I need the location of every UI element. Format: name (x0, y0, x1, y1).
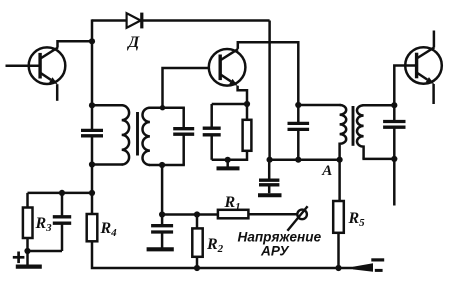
wire R2 leads (196, 215, 199, 229)
wire R1 to AGC terminal (248, 213, 297, 216)
capacitor C3 inline (tank2 primary) (297, 105, 300, 123)
wire top rail from left bus to diode anode (92, 19, 127, 22)
wire VT2 emitter jog to emitter resistor (238, 86, 247, 120)
node emitter RC top (244, 101, 250, 107)
node tank2 secondary top (391, 102, 397, 108)
svg-text:R2: R2 (206, 236, 224, 255)
node AGC rail left (159, 211, 165, 217)
node R2 top (194, 211, 200, 217)
node R3 bottom junction (24, 248, 30, 254)
node bus/R3 junction (89, 190, 95, 196)
transistor VT2 (middle) (209, 49, 246, 86)
inductor L4 tank2 secondary winding (357, 105, 364, 159)
wire tank1 secondary tap down to AGC rail (161, 165, 164, 215)
wire secondary bottom drop (dangling) (393, 159, 396, 206)
transistor VT1 (left) (29, 47, 66, 84)
wire detector drop vertical (268, 21, 271, 160)
node R2 bottom (194, 265, 200, 271)
wire left bus to R4 (91, 165, 94, 215)
inductor L1 tank1 primary winding (122, 105, 129, 164)
svg-text:АРУ: АРУ (260, 244, 290, 259)
svg-text:R1: R1 (224, 194, 241, 213)
wire VT3 collector up (433, 31, 436, 48)
wire node A down to R5 (338, 160, 341, 201)
node junction bus/collector (89, 38, 95, 44)
wire tank1 secondary bottom link (149, 164, 185, 167)
wire tank1 secondary top link (149, 106, 185, 109)
transformer T1 core (136, 112, 139, 156)
minus terminal bars (371, 258, 384, 261)
wire VT1 collector to left bus (58, 41, 93, 47)
node R3C8 top junction (59, 190, 65, 196)
svg-text:R5: R5 (348, 210, 366, 229)
wire tank2 primary top link (298, 104, 341, 107)
capacitor C2 tank1 secondary (182, 108, 185, 129)
wire tank1 primary top link (92, 104, 123, 107)
node detector junction (267, 157, 273, 163)
capacitor C4 tank2 secondary (393, 105, 396, 121)
wire tank2 secondary top link (362, 104, 395, 107)
ground (emitter) (226, 160, 229, 167)
node tank2 primary top (295, 102, 301, 108)
resistor R4 body (87, 214, 98, 241)
svg-text:R3: R3 (35, 215, 53, 234)
capacitor C7 detector filter (268, 160, 271, 181)
wire left bus vertical (diode corner to tank top) (91, 19, 94, 105)
inductor L2 tank1 secondary winding (142, 108, 149, 165)
wire emitter cap branch top (212, 103, 247, 106)
node tank2 primary bottom (295, 157, 301, 163)
wire R5 bottom (337, 233, 340, 268)
wire to plus ground (26, 251, 29, 265)
node base tap junction (160, 105, 165, 110)
wire VT2 collector to T2 (238, 42, 298, 105)
node emitter ground tap (225, 157, 231, 163)
node tank1 primary top (89, 102, 95, 108)
node tank2 secondary bottom (391, 156, 397, 162)
resistor R2 body (192, 228, 202, 256)
resistor R (emitter) body (243, 120, 252, 151)
diode D (anode triangle) (127, 13, 141, 28)
wire VT2 base tap riser and lead (163, 68, 210, 108)
resistor R5 body (333, 201, 344, 233)
wire emitter resistor bottom (212, 151, 247, 160)
inductor L3 tank2 primary winding (340, 105, 347, 160)
wire VT3 emitter down (432, 84, 435, 104)
wire R3 bottom (26, 238, 29, 251)
capacitor C8 parallel R3 (61, 193, 64, 217)
wire tank1 primary bottom link (92, 163, 123, 166)
resistor R1 body (218, 210, 249, 219)
ground (plus terminal) (16, 265, 42, 269)
wire tank2 secondary bottom link (362, 158, 395, 161)
diode D cathode bar (140, 13, 143, 29)
node A (337, 157, 343, 163)
wire AGC rail (162, 213, 218, 216)
svg-text:A: A (321, 163, 332, 179)
capacitor C1 inline on left bus (tank1 primary) (91, 105, 94, 130)
node tank1 primary bottom (89, 161, 95, 167)
wire AGC line to node A (270, 158, 340, 161)
wire VT3 base riser and lead (394, 66, 417, 106)
capacitor C5 emitter bypass (210, 104, 213, 128)
node tank1 secondary bottom tap (159, 162, 165, 168)
capacitor C6 AGC filter (161, 215, 164, 226)
node R5 / ground bus (335, 265, 341, 271)
svg-text:R4: R4 (100, 220, 118, 239)
resistor R3 body (23, 208, 33, 239)
svg-text:Д: Д (126, 34, 140, 51)
minus supply arrow (353, 263, 373, 272)
wire R3 top to bus (28, 192, 93, 195)
ground (detector cap) (258, 193, 282, 197)
transformer T2 core (352, 106, 355, 146)
transistor VT3 (right) (405, 47, 442, 84)
label plus terminal (13, 256, 25, 259)
wire top rail from diode cathode to detector drop (141, 19, 270, 22)
ground (AGC cap) (147, 247, 174, 251)
svg-text:Напряжение: Напряжение (238, 230, 322, 245)
wire R4 bottom to ground bus (92, 241, 354, 268)
wire VT1 emitter down (dangling) (56, 84, 59, 101)
wire VT1 base lead (6, 64, 41, 67)
terminal AGC output (circle with slash) (297, 210, 307, 220)
wire R3 bottom link to cap (28, 250, 63, 253)
